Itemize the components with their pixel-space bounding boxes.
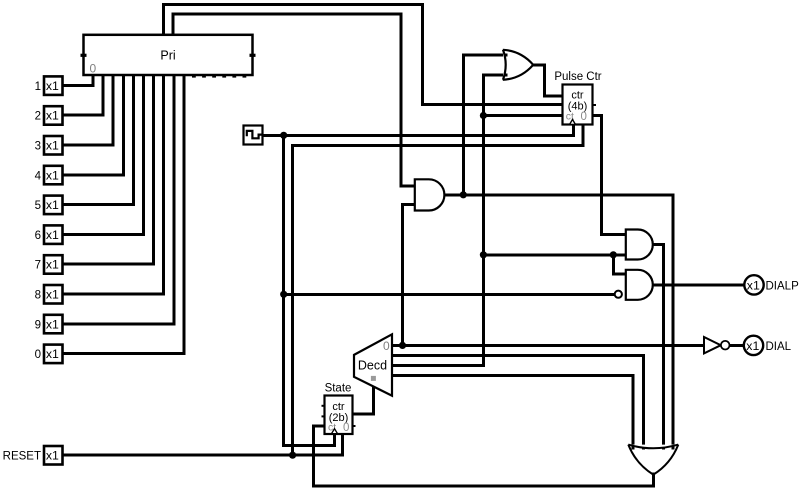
svg-text:State: State bbox=[325, 383, 352, 395]
svg-text:x1: x1 bbox=[46, 79, 59, 93]
svg-text:DIALP: DIALP bbox=[766, 280, 800, 292]
svg-text:x1: x1 bbox=[46, 258, 59, 272]
svg-text:x1: x1 bbox=[46, 109, 59, 123]
svg-text:6: 6 bbox=[35, 230, 41, 242]
svg-text:9: 9 bbox=[35, 319, 41, 331]
svg-text:x1: x1 bbox=[747, 279, 760, 293]
svg-text:x1: x1 bbox=[46, 347, 59, 361]
svg-text:x1: x1 bbox=[46, 288, 59, 302]
svg-text:Pri: Pri bbox=[160, 49, 175, 63]
svg-text:x1: x1 bbox=[46, 168, 59, 182]
svg-text:2: 2 bbox=[35, 111, 41, 123]
svg-text:RESET: RESET bbox=[3, 451, 41, 463]
svg-text:3: 3 bbox=[35, 141, 41, 153]
svg-text:7: 7 bbox=[35, 260, 41, 272]
svg-text:8: 8 bbox=[35, 290, 41, 302]
svg-text:5: 5 bbox=[35, 200, 41, 212]
svg-text:DIAL: DIAL bbox=[766, 341, 792, 353]
svg-text:x1: x1 bbox=[46, 317, 59, 331]
svg-text:Pulse Ctr: Pulse Ctr bbox=[554, 71, 601, 83]
svg-text:x1: x1 bbox=[46, 139, 59, 153]
svg-text:0: 0 bbox=[581, 111, 587, 123]
svg-text:Decd: Decd bbox=[358, 358, 387, 372]
svg-text:4: 4 bbox=[35, 170, 42, 182]
svg-text:0: 0 bbox=[383, 339, 390, 353]
svg-text:0: 0 bbox=[343, 422, 349, 434]
svg-text:x1: x1 bbox=[746, 339, 759, 353]
svg-text:0: 0 bbox=[35, 349, 41, 361]
svg-text:1: 1 bbox=[35, 81, 41, 93]
svg-text:x1: x1 bbox=[46, 449, 59, 463]
svg-text:x1: x1 bbox=[46, 228, 59, 242]
svg-text:0: 0 bbox=[90, 62, 97, 76]
svg-text:x1: x1 bbox=[46, 198, 59, 212]
